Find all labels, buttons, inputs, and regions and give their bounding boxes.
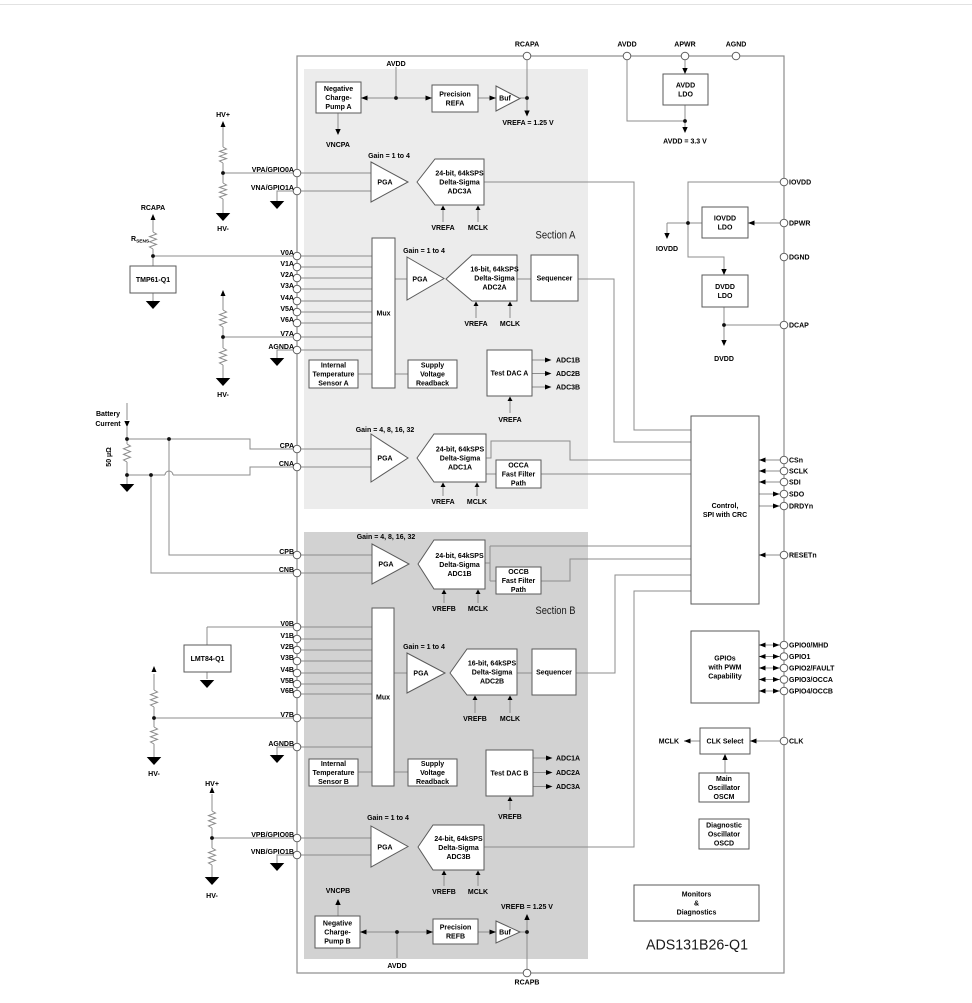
svg-text:Oscillator: Oscillator [708,785,741,792]
svg-text:AGNDB: AGNDB [268,741,294,748]
svg-text:V4B: V4B [280,667,294,674]
svg-text:VREFA: VREFA [498,417,521,424]
svg-text:ADC1A: ADC1A [556,756,580,763]
svg-text:RCAPA: RCAPA [515,42,539,49]
svg-text:DGND: DGND [789,255,810,262]
svg-text:Path: Path [511,587,526,594]
svg-text:Battery: Battery [96,411,120,418]
svg-text:V7B: V7B [280,712,294,719]
svg-text:Oscillator: Oscillator [708,832,741,839]
svg-text:ADC1B: ADC1B [556,358,580,365]
svg-text:VREFB = 1.25 V: VREFB = 1.25 V [501,904,553,911]
svg-text:Precision: Precision [440,925,472,932]
svg-text:V0B: V0B [280,621,294,628]
svg-text:Gain = 1 to 4: Gain = 1 to 4 [403,248,445,255]
svg-text:PGA: PGA [412,277,427,284]
svg-text:Delta-Sigma: Delta-Sigma [440,456,481,463]
svg-text:ADC2A: ADC2A [556,770,580,777]
svg-text:Readback: Readback [416,381,449,388]
svg-text:HV-: HV- [217,226,229,233]
svg-text:ADC3B: ADC3B [446,854,470,861]
svg-text:AVDD: AVDD [387,963,406,970]
svg-text:VNB/GPIO1B: VNB/GPIO1B [251,849,294,856]
svg-text:REFB: REFB [446,934,465,941]
svg-text:ADC2B: ADC2B [480,679,504,686]
svg-text:Temperature: Temperature [313,770,355,777]
svg-text:PGA: PGA [378,562,393,569]
svg-text:&: & [694,901,699,908]
svg-text:OCCB: OCCB [508,569,529,576]
svg-text:Negative: Negative [323,921,352,928]
svg-text:MCLK: MCLK [467,499,487,506]
svg-text:Pump B: Pump B [324,939,350,946]
svg-text:Main: Main [716,776,732,783]
svg-text:Delta-Sigma: Delta-Sigma [439,180,480,187]
svg-text:Supply: Supply [421,363,444,370]
svg-text:ADC3B: ADC3B [556,385,580,392]
svg-text:HV-: HV- [217,392,229,399]
svg-text:OCCA: OCCA [508,463,529,470]
svg-text:CPA: CPA [280,443,294,450]
svg-text:24-bit, 64kSPS: 24-bit, 64kSPS [435,553,484,560]
svg-text:REFA: REFA [446,101,465,108]
svg-text:Sensor A: Sensor A [318,381,348,388]
svg-text:VNA/GPIO1A: VNA/GPIO1A [251,185,294,192]
svg-text:V2B: V2B [280,644,294,651]
svg-text:MCLK: MCLK [468,225,488,232]
svg-text:DRDYn: DRDYn [789,504,813,511]
svg-text:Sequencer: Sequencer [537,276,573,283]
svg-text:Capability: Capability [708,674,742,681]
svg-text:PGA: PGA [377,180,392,187]
svg-text:SDO: SDO [789,492,805,499]
svg-text:VREFA: VREFA [431,499,454,506]
svg-text:V6A: V6A [280,317,294,324]
svg-text:Test DAC B: Test DAC B [491,771,529,778]
svg-text:Diagnostics: Diagnostics [677,910,717,917]
svg-text:Fast Filter: Fast Filter [502,472,536,479]
svg-text:DCAP: DCAP [789,323,809,330]
svg-text:with PWM: with PWM [707,665,741,672]
svg-text:IOVDD: IOVDD [714,216,736,223]
svg-text:ADC1B: ADC1B [447,571,471,578]
svg-text:V1A: V1A [280,261,294,268]
svg-text:IOVDD: IOVDD [656,246,678,253]
svg-text:Test DAC A: Test DAC A [491,371,529,378]
svg-text:Internal: Internal [321,761,346,768]
svg-text:Delta-Sigma: Delta-Sigma [439,562,480,569]
svg-text:CLK: CLK [789,739,803,746]
svg-text:Buf: Buf [499,930,511,937]
svg-text:OSCM: OSCM [714,794,735,801]
svg-text:MCLK: MCLK [500,321,520,328]
svg-text:V0A: V0A [280,250,294,257]
svg-text:GPIO1: GPIO1 [789,654,811,661]
svg-text:Gain = 1 to 4: Gain = 1 to 4 [368,153,410,160]
svg-text:V5A: V5A [280,306,294,313]
svg-text:V4A: V4A [280,295,294,302]
svg-text:HV-: HV- [148,771,160,778]
svg-text:LMT84-Q1: LMT84-Q1 [191,656,225,663]
svg-text:GPIO3/OCCA: GPIO3/OCCA [789,677,833,684]
svg-text:V3A: V3A [280,283,294,290]
svg-text:ADS131B26-Q1: ADS131B26-Q1 [646,937,748,954]
svg-text:Readback: Readback [416,779,449,786]
svg-text:TMP61-Q1: TMP61-Q1 [136,277,170,284]
svg-text:VREFB: VREFB [432,606,456,613]
svg-text:SPI with CRC: SPI with CRC [703,512,747,519]
svg-text:Path: Path [511,481,526,488]
svg-text:VREFA = 1.25 V: VREFA = 1.25 V [502,120,554,127]
svg-text:VNCPA: VNCPA [326,142,350,149]
svg-text:Supply: Supply [421,761,444,768]
svg-text:IOVDD: IOVDD [789,180,811,187]
svg-text:HV+: HV+ [216,112,230,119]
svg-text:VNCPB: VNCPB [326,888,351,895]
svg-text:APWR: APWR [674,42,695,49]
svg-text:Temperature: Temperature [313,372,355,379]
svg-text:24-bit, 64kSPS: 24-bit, 64kSPS [436,447,485,454]
svg-text:Fast Filter: Fast Filter [502,578,536,585]
svg-text:Precision: Precision [439,92,471,99]
svg-text:Gain = 1 to 4: Gain = 1 to 4 [367,815,409,822]
svg-text:HV-: HV- [206,893,218,900]
svg-text:ADC2B: ADC2B [556,371,580,378]
svg-text:24-bit, 64kSPS: 24-bit, 64kSPS [434,836,483,843]
svg-text:VREFB: VREFB [498,814,522,821]
svg-text:Mux: Mux [377,311,391,318]
svg-text:ADC3A: ADC3A [447,189,471,196]
svg-text:DPWR: DPWR [789,221,810,228]
svg-text:MCLK: MCLK [659,739,679,746]
svg-text:AGND: AGND [726,42,747,49]
svg-text:VREFA: VREFA [464,321,487,328]
svg-text:PGA: PGA [413,671,428,678]
svg-text:Delta-Sigma: Delta-Sigma [472,670,513,677]
svg-text:AVDD: AVDD [617,42,636,49]
svg-text:RCAPB: RCAPB [515,980,540,987]
svg-text:ADC1A: ADC1A [448,465,472,472]
svg-text:Sequencer: Sequencer [536,670,572,677]
svg-text:24-bit, 64kSPS: 24-bit, 64kSPS [435,171,484,178]
svg-text:Section B: Section B [536,605,576,617]
svg-text:Current: Current [95,421,121,428]
svg-text:VREFB: VREFB [463,716,487,723]
svg-text:CNA: CNA [279,461,294,468]
svg-text:16-bit, 64kSPS: 16-bit, 64kSPS [468,661,517,668]
svg-text:V3B: V3B [280,655,294,662]
svg-text:AVDD: AVDD [676,83,695,90]
svg-text:LDO: LDO [718,293,733,300]
svg-text:OSCD: OSCD [714,841,734,848]
svg-text:ADC3A: ADC3A [556,784,580,791]
svg-text:GPIOs: GPIOs [714,656,736,663]
svg-text:AGNDA: AGNDA [268,344,294,351]
svg-text:MCLK: MCLK [500,716,520,723]
svg-text:DVDD: DVDD [714,356,734,363]
svg-text:Control,: Control, [712,503,739,510]
svg-text:VREFB: VREFB [432,889,456,896]
svg-text:VPB/GPIO0B: VPB/GPIO0B [251,832,294,839]
svg-text:CSn: CSn [789,458,803,465]
svg-text:Section A: Section A [536,230,577,242]
svg-text:50 µΩ: 50 µΩ [106,447,113,467]
svg-text:Internal: Internal [321,363,346,370]
svg-text:SCLK: SCLK [789,469,808,476]
svg-text:GPIO2/FAULT: GPIO2/FAULT [789,666,835,673]
svg-text:GPIO0/MHD: GPIO0/MHD [789,643,828,650]
svg-text:LDO: LDO [678,92,693,99]
svg-text:CNB: CNB [279,567,294,574]
svg-text:Delta-Sigma: Delta-Sigma [438,845,479,852]
svg-text:Gain = 1 to 4: Gain = 1 to 4 [403,644,445,651]
svg-text:MCLK: MCLK [468,606,488,613]
svg-text:HV+: HV+ [205,781,219,788]
svg-text:ADC2A: ADC2A [482,285,506,292]
svg-text:SDI: SDI [789,480,801,487]
svg-text:V5B: V5B [280,678,294,685]
svg-text:Voltage: Voltage [420,770,445,777]
svg-text:Sensor B: Sensor B [318,779,349,786]
svg-text:AVDD = 3.3 V: AVDD = 3.3 V [663,139,707,146]
svg-text:Mux: Mux [376,695,390,702]
svg-text:PGA: PGA [377,845,392,852]
svg-text:Charge-: Charge- [325,95,352,102]
svg-text:RESETn: RESETn [789,553,817,560]
svg-text:V2A: V2A [280,272,294,279]
svg-text:Buf: Buf [499,96,511,103]
svg-text:V7A: V7A [280,331,294,338]
svg-text:Pump A: Pump A [325,104,351,111]
svg-text:VREFA: VREFA [431,225,454,232]
svg-text:GPIO4/OCCB: GPIO4/OCCB [789,689,833,696]
svg-text:Monitors: Monitors [682,892,712,899]
svg-text:LDO: LDO [718,225,733,232]
svg-text:Negative: Negative [324,86,353,93]
svg-text:Diagnostic: Diagnostic [706,823,742,830]
svg-text:CLK Select: CLK Select [707,739,745,746]
svg-text:Delta-Sigma: Delta-Sigma [474,276,515,283]
svg-text:AVDD: AVDD [386,61,405,68]
svg-text:V6B: V6B [280,688,294,695]
svg-text:Gain = 4, 8, 16, 32: Gain = 4, 8, 16, 32 [357,534,416,541]
svg-text:CPB: CPB [279,549,294,556]
svg-text:V1B: V1B [280,633,294,640]
svg-text:Gain = 4, 8, 16, 32: Gain = 4, 8, 16, 32 [356,427,415,434]
svg-text:16-bit, 64kSPS: 16-bit, 64kSPS [470,267,519,274]
svg-text:Voltage: Voltage [420,372,445,379]
svg-text:DVDD: DVDD [715,284,735,291]
svg-text:Charge-: Charge- [324,930,351,937]
svg-text:PGA: PGA [377,456,392,463]
svg-text:MCLK: MCLK [468,889,488,896]
svg-text:VPA/GPIO0A: VPA/GPIO0A [252,167,294,174]
svg-text:RCAPA: RCAPA [141,205,165,212]
